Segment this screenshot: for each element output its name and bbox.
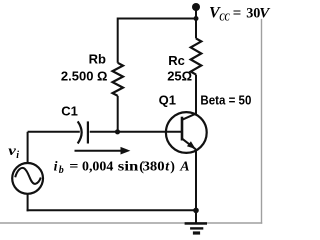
svg-text:=: = (69, 159, 78, 174)
wire emitter (195, 149, 197, 211)
wire source top (27, 132, 29, 163)
svg-text:2.500 Ω: 2.500 Ω (61, 68, 108, 83)
capacitor C1 (78, 121, 88, 143)
svg-text:A: A (179, 159, 189, 174)
label ib equation (54, 159, 190, 176)
node base junction (115, 129, 120, 134)
resistor Rb (113, 63, 124, 96)
wire ground stub (195, 210, 197, 223)
svg-text:): ) (170, 159, 175, 174)
svg-text:sin: sin (118, 159, 139, 174)
arrow ib (75, 147, 131, 155)
svg-text:0,004: 0,004 (82, 159, 113, 174)
wire base left (28, 131, 80, 133)
node bottom junction (193, 208, 199, 214)
transistor Q1 (166, 112, 207, 153)
wire source bottom (27, 194, 29, 211)
node top junction (194, 16, 199, 21)
svg-text:i: i (54, 159, 58, 174)
resistor Rc (191, 38, 202, 74)
svg-text:Rb: Rb (89, 51, 106, 66)
svg-text:380: 380 (143, 159, 165, 174)
ground (185, 222, 207, 234)
source vi (12, 163, 43, 194)
svg-text:25Ω: 25Ω (167, 68, 192, 83)
svg-text:=: = (233, 6, 242, 22)
svg-text:i: i (16, 150, 19, 161)
wire top rail (118, 18, 196, 20)
wire Rb upper (117, 18, 119, 63)
svg-text:C1: C1 (61, 104, 78, 119)
wire VCC stub (195, 7, 197, 19)
wire Rc upper (195, 19, 197, 39)
node VCC terminal (192, 3, 200, 11)
svg-text:Beta = 50: Beta = 50 (200, 92, 251, 107)
label VCC = 30V (209, 5, 271, 24)
svg-text:Q1: Q1 (159, 92, 176, 107)
wire Rb lower (117, 96, 119, 132)
wire base right (90, 131, 182, 133)
wire bottom rail (27, 209, 196, 211)
svg-text:b: b (59, 165, 64, 176)
svg-text:CC: CC (219, 13, 230, 24)
wire collector (195, 75, 197, 115)
svg-text:Rc: Rc (168, 53, 185, 68)
